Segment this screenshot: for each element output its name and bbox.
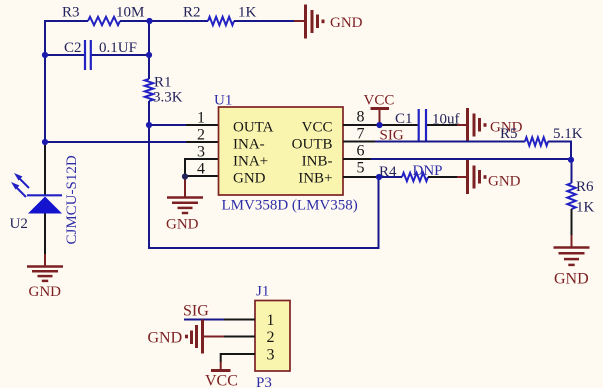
photodiode U2 light arrows	[11, 173, 29, 197]
svg-text:3.3K: 3.3K	[153, 90, 183, 106]
svg-text:8: 8	[357, 109, 365, 126]
junction pin5 R4 feedback	[376, 174, 382, 180]
junction pins 3-4 ground	[182, 173, 188, 179]
svg-text:GND: GND	[488, 174, 521, 190]
wire left vertical node A	[44, 20, 46, 143]
wire J1 pin 3 to VCC	[221, 354, 255, 363]
ground GND bottom left	[27, 254, 63, 300]
ground GND at J1 pin 2 (sideways left)	[148, 320, 226, 354]
wire pin1 node to U1 pin 1	[149, 124, 187, 126]
op-amp U1 pin numbers 1-4	[197, 110, 205, 178]
wire R4 to ground	[428, 176, 457, 178]
junction C2 left	[42, 52, 48, 58]
svg-text:GND: GND	[148, 330, 183, 347]
svg-text:GND: GND	[554, 271, 589, 288]
ground GND right of C1 (sideways)	[457, 108, 523, 142]
svg-text:C2: C2	[64, 40, 82, 56]
svg-text:U1: U1	[214, 93, 232, 109]
junction pin1 R1 feedback	[146, 122, 152, 128]
junction C2 right	[146, 52, 152, 58]
photodiode U2 CJMCU-S12D	[10, 142, 81, 255]
wire pin 6 net to junction	[371, 158, 571, 160]
wire U1 pin 7 stub	[343, 141, 376, 143]
svg-text:1K: 1K	[238, 5, 257, 21]
wire junction down to R6	[571, 160, 573, 184]
wire R3 to R2	[120, 20, 208, 22]
junction pin8 VCC C1	[376, 122, 382, 128]
svg-text:R1: R1	[154, 75, 172, 91]
power VCC above pin 8	[364, 93, 395, 126]
junction R5 pin6 R6	[568, 157, 574, 163]
wire feedback OUTA down and across to INB+	[149, 125, 379, 248]
svg-text:1K: 1K	[576, 200, 595, 216]
svg-text:6: 6	[357, 143, 365, 160]
svg-text:VCC: VCC	[302, 120, 333, 136]
svg-text:C1: C1	[395, 111, 413, 127]
svg-text:3: 3	[267, 347, 275, 364]
svg-text:GND: GND	[29, 284, 62, 300]
svg-text:R6: R6	[576, 179, 594, 195]
svg-text:R2: R2	[183, 5, 201, 21]
wire U1 pin 6 stub	[343, 158, 372, 160]
wire U1 pin 5 stub	[343, 176, 380, 178]
svg-text:3: 3	[197, 144, 205, 161]
svg-text:GND: GND	[330, 15, 363, 31]
capacitor C2 0.1UF	[45, 40, 149, 70]
ground GND bottom right	[554, 235, 590, 288]
svg-text:INA+: INA+	[233, 154, 268, 170]
svg-text:GND: GND	[166, 217, 199, 233]
svg-text:1: 1	[197, 110, 205, 127]
svg-text:5: 5	[357, 160, 365, 177]
wire node A to U1 pin 2	[45, 141, 187, 143]
wire U1 pin 3 to ground stem	[185, 159, 219, 176]
ground GND right of R4 (sideways)	[457, 160, 521, 194]
wire U1 pin 4 to ground node	[185, 175, 219, 177]
resistor R5 5.1K	[500, 126, 583, 146]
wire U1 pin 8 to VCC node	[343, 124, 380, 126]
power VCC below J1 pin 3	[205, 362, 238, 388]
svg-text:R3: R3	[62, 5, 80, 21]
svg-text:U2: U2	[10, 216, 28, 232]
svg-text:J1: J1	[256, 284, 269, 300]
svg-text:LMV358D (LMV358): LMV358D (LMV358)	[222, 198, 358, 214]
svg-text:INA-: INA-	[233, 137, 265, 153]
svg-text:0.1UF: 0.1UF	[99, 40, 137, 56]
svg-text:P3: P3	[256, 375, 272, 388]
wire R5 to corner down to junction	[548, 142, 571, 160]
wire pin 5 node to R4	[379, 176, 402, 178]
junction node B top	[146, 18, 152, 24]
op-amp U1 pin numbers 5-8	[357, 109, 365, 177]
junction node A pin2 row	[42, 139, 48, 145]
svg-text:VCC: VCC	[205, 373, 238, 388]
resistor R2 1K	[183, 5, 257, 26]
svg-text:VCC: VCC	[364, 93, 395, 109]
svg-text:10M: 10M	[116, 5, 144, 21]
op-amp U1 LMV358D body	[214, 93, 358, 214]
wire mid vertical node B	[148, 21, 150, 79]
svg-text:10uf: 10uf	[432, 112, 460, 128]
wire SIG net to J1 pin 1	[184, 319, 225, 321]
wire SIG net to R5	[375, 141, 525, 143]
resistor R1 3.3K	[145, 75, 183, 106]
wire J1 pin 2 stub	[224, 336, 255, 338]
svg-text:4: 4	[197, 161, 205, 178]
wire R6 to bottom-right ground	[571, 209, 573, 236]
connector J1 body	[255, 284, 290, 388]
wire R1 bottom to pin1 node	[148, 101, 150, 125]
svg-text:CJMCU-S12D: CJMCU-S12D	[64, 155, 80, 244]
svg-text:R5: R5	[500, 126, 518, 142]
ground GND below U1 pins 3,4	[166, 176, 203, 233]
svg-text:2: 2	[197, 127, 205, 144]
op-amp U1 pin names	[233, 120, 333, 187]
svg-text:1: 1	[267, 312, 275, 329]
resistor R3 10M	[62, 5, 144, 26]
svg-text:GND: GND	[233, 171, 266, 187]
svg-text:5.1K: 5.1K	[553, 126, 583, 142]
svg-text:OUTA: OUTA	[233, 120, 274, 136]
svg-text:2: 2	[267, 329, 275, 346]
svg-text:7: 7	[357, 126, 365, 143]
connector J1 pin numbers	[267, 312, 275, 364]
resistor R4 DNP	[379, 163, 443, 181]
wire R2 to top-right ground	[234, 20, 294, 22]
svg-text:INB-: INB-	[302, 154, 333, 170]
capacitor C1 10uf	[380, 109, 460, 141]
wire top net from node A to R3	[45, 20, 88, 22]
resistor R6 1K	[567, 179, 594, 216]
svg-text:INB+: INB+	[298, 171, 332, 187]
svg-text:OUTB: OUTB	[292, 137, 333, 153]
ground GND top right (sideways)	[294, 5, 363, 39]
svg-text:SIG: SIG	[183, 303, 209, 320]
